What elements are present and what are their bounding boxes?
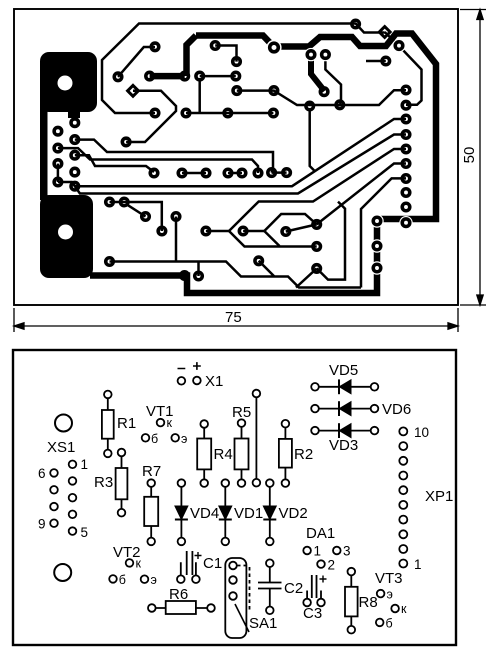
wire y261 bbox=[110, 261, 362, 288]
dimension 50 bbox=[460, 10, 486, 306]
svg-text:1: 1 bbox=[414, 557, 422, 572]
wire diag bbox=[126, 204, 146, 217]
transistor VT2 pads bbox=[109, 559, 148, 583]
wire F5 via bottom channel bbox=[361, 178, 406, 287]
wire link pads bbox=[253, 390, 261, 487]
wire col2 e fan F1 bbox=[75, 119, 406, 186]
svg-text:6: 6 bbox=[38, 466, 46, 481]
svg-text:1: 1 bbox=[314, 544, 322, 559]
board edge bbox=[14, 9, 458, 305]
diode VD3 bbox=[311, 423, 378, 438]
resistor R2 bbox=[279, 420, 292, 487]
svg-text:к: к bbox=[401, 602, 407, 616]
svg-text:б: б bbox=[119, 573, 126, 587]
capacitor C1 bbox=[177, 551, 202, 583]
svg-text:R2: R2 bbox=[294, 446, 313, 463]
diode VD2 bbox=[263, 479, 276, 545]
wire y105 bbox=[237, 90, 406, 105]
pads XP1 column bbox=[402, 86, 410, 226]
svg-text:XS1: XS1 bbox=[47, 439, 75, 456]
wire octagon inner bbox=[118, 47, 155, 77]
svg-text:VD3: VD3 bbox=[329, 437, 358, 454]
svg-text:3: 3 bbox=[343, 544, 351, 559]
TOP-PANEL bbox=[14, 9, 486, 332]
VT1 pin labels bbox=[151, 416, 187, 446]
wire chevron2 stem bbox=[243, 230, 264, 233]
pads chevron area bbox=[202, 221, 320, 273]
svg-text:R1: R1 bbox=[117, 415, 136, 432]
capacitor C3 bbox=[303, 575, 326, 606]
DA1 pads bbox=[303, 547, 340, 568]
svg-text:VD6: VD6 bbox=[382, 401, 411, 418]
wire riser bbox=[198, 78, 201, 113]
thick ground ring bbox=[90, 34, 436, 294]
svg-text:R4: R4 bbox=[214, 446, 233, 463]
svg-text:DA1: DA1 bbox=[306, 525, 335, 542]
wire ring inner to XP pad2 bbox=[401, 48, 422, 105]
resistor R7 bbox=[144, 479, 158, 545]
svg-text:R6: R6 bbox=[169, 586, 188, 603]
diode VD4 bbox=[175, 479, 188, 545]
wire chevron1 down bbox=[229, 231, 317, 247]
svg-text:9: 9 bbox=[38, 517, 46, 532]
capacitor C2 bbox=[258, 559, 282, 614]
svg-text:VD5: VD5 bbox=[329, 362, 358, 379]
copper pour top-left bbox=[40, 52, 97, 200]
wire link pad to F3 channel bbox=[317, 202, 345, 280]
pads row y173 bbox=[150, 169, 290, 177]
thick wire segment bbox=[150, 73, 185, 80]
wire chevron1 stem bbox=[206, 230, 229, 233]
svg-text:к: к bbox=[167, 416, 173, 430]
BOTTOM-PANEL bbox=[13, 350, 456, 645]
pads middle lower bbox=[106, 138, 203, 280]
pads row y113 bbox=[182, 109, 277, 117]
wire col2 c bbox=[75, 155, 154, 172]
thick branch wire bbox=[187, 36, 197, 77]
resistor R8 bbox=[345, 568, 358, 634]
connector XP1 pads bbox=[399, 427, 407, 567]
connector XS1 pads row B bbox=[50, 469, 58, 527]
resistor R3 bbox=[116, 449, 128, 517]
wire squiggle bbox=[126, 91, 176, 142]
diode VD1 bbox=[219, 479, 232, 545]
transistor VT3 pads bbox=[376, 590, 399, 626]
dimension 75 bbox=[14, 308, 458, 332]
mounting hole top bbox=[55, 415, 72, 432]
svg-text:VT3: VT3 bbox=[375, 570, 403, 587]
svg-text:R8: R8 bbox=[359, 594, 378, 611]
thick stub to pad bbox=[311, 56, 325, 91]
svg-text:XP1: XP1 bbox=[425, 488, 453, 505]
mounting hole in pour bbox=[58, 76, 73, 91]
embedded pad clearances bbox=[266, 39, 412, 275]
svg-text:SA1: SA1 bbox=[249, 615, 277, 632]
wire vertical bbox=[175, 217, 178, 262]
resistor R4 bbox=[197, 420, 211, 487]
connector XS1 pads row A bbox=[69, 461, 77, 535]
wire vertical from pad bbox=[310, 110, 315, 171]
wire diamond link bbox=[385, 32, 397, 44]
svg-text:э: э bbox=[151, 573, 157, 587]
wire row y173 links bbox=[182, 172, 242, 175]
wire top middle bbox=[215, 46, 236, 62]
pads top middle bbox=[211, 20, 402, 110]
wire chevron2 down bbox=[264, 231, 279, 246]
pads embedded in ground bbox=[181, 217, 381, 279]
svg-text:э: э bbox=[387, 588, 393, 602]
connector X1 bbox=[178, 362, 201, 385]
transistor VT1 pads bbox=[142, 419, 179, 442]
pads group 1 octagon area bbox=[114, 43, 159, 117]
svg-text:C2: C2 bbox=[284, 580, 303, 597]
svg-text:VD2: VD2 bbox=[279, 505, 308, 522]
svg-text:R5: R5 bbox=[232, 404, 251, 421]
wire chevron1 up fan F3 bbox=[229, 149, 406, 231]
board outline bbox=[13, 350, 456, 645]
svg-text:2: 2 bbox=[328, 558, 336, 573]
wire fan F4 bbox=[317, 164, 406, 225]
svg-text:VD4: VD4 bbox=[190, 505, 219, 522]
mounting hole in pour bbox=[58, 225, 73, 240]
wire y76 link bbox=[200, 75, 236, 78]
XS1 pin labels bbox=[38, 457, 88, 540]
wire col1 link bbox=[57, 164, 60, 182]
svg-text:э: э bbox=[181, 432, 187, 446]
svg-text:1: 1 bbox=[81, 457, 89, 472]
svg-text:к: к bbox=[136, 557, 142, 571]
wire y61 bbox=[366, 60, 386, 63]
wire T1 bbox=[102, 24, 385, 114]
wire chevron2 up bbox=[264, 214, 316, 231]
svg-text:10: 10 bbox=[414, 425, 429, 440]
wire col1 fan F2 bbox=[58, 135, 406, 194]
svg-text:б: б bbox=[151, 432, 158, 446]
copper pour bottom-left bbox=[40, 195, 93, 278]
svg-text:VD1: VD1 bbox=[234, 505, 263, 522]
svg-text:C3: C3 bbox=[303, 605, 322, 622]
pads row y76 bbox=[146, 72, 240, 80]
resistor R6 bbox=[148, 601, 215, 614]
svg-text:5: 5 bbox=[81, 525, 89, 540]
mounting hole bottom bbox=[54, 564, 71, 581]
pads left columns bbox=[54, 119, 78, 190]
XP1 labels bbox=[414, 425, 453, 572]
switch SA1 bbox=[225, 558, 249, 638]
wire diag to pad bbox=[286, 224, 317, 231]
diode VD6 bbox=[311, 401, 378, 416]
wire y202 bbox=[110, 202, 162, 231]
DA1 pin labels bbox=[314, 544, 351, 573]
svg-text:X1: X1 bbox=[205, 373, 223, 390]
svg-text:50: 50 bbox=[461, 147, 478, 164]
wire col2 b to pad pair bbox=[75, 140, 287, 173]
svg-text:б: б bbox=[386, 617, 393, 631]
resistor R1 bbox=[102, 391, 114, 458]
svg-text:R3: R3 bbox=[94, 474, 113, 491]
VT2 pin labels bbox=[119, 557, 157, 588]
svg-text:R7: R7 bbox=[142, 463, 161, 480]
svg-text:75: 75 bbox=[225, 309, 242, 326]
wire y113 bbox=[186, 112, 273, 115]
diode VD5 bbox=[311, 379, 378, 394]
wire col1 mid bbox=[58, 148, 258, 173]
svg-text:C1: C1 bbox=[203, 555, 222, 572]
wire curve to pad bbox=[325, 57, 341, 104]
VT3 pin labels bbox=[386, 588, 408, 631]
resistor R5 bbox=[235, 419, 249, 487]
